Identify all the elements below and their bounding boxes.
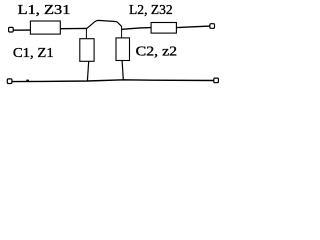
svg-text:C2, z2: C2, z2 xyxy=(136,45,177,60)
terminal top-right (port 2) xyxy=(210,24,215,29)
lead C1 down to bottom wire xyxy=(87,61,88,81)
shunt impedance box C1, Z1 xyxy=(80,39,94,62)
shunt impedance box C2, z2 xyxy=(116,38,130,61)
svg-text:L2, Z32: L2, Z32 xyxy=(129,3,173,18)
svg-text:L1, Z31: L1, Z31 xyxy=(18,3,71,18)
impedance box L1, Z31 xyxy=(30,21,60,34)
node B short drop to right wire xyxy=(121,26,123,38)
bridge wire (hump) node A to node B xyxy=(87,20,122,28)
wire L1 to node A xyxy=(61,27,87,29)
wire terminal1 to L1 xyxy=(14,29,31,31)
wire L2 to terminal top-right xyxy=(177,26,210,28)
wire node B to L2 xyxy=(122,28,152,30)
speck on bottom wire xyxy=(26,80,29,81)
terminal bottom-left xyxy=(7,79,12,84)
terminal bottom-right xyxy=(214,78,219,83)
svg-text:C1, Z1: C1, Z1 xyxy=(13,46,54,61)
bottom return wire xyxy=(12,80,214,82)
terminal top-left (port 1) xyxy=(9,27,14,32)
impedance box L2, Z32 xyxy=(151,23,176,34)
lead C2 down to bottom wire xyxy=(122,61,123,81)
node A lead down to C1 xyxy=(85,28,87,38)
